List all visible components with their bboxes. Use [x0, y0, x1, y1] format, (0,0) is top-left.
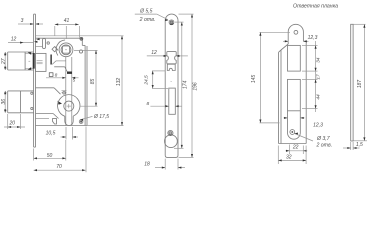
svg-text:50: 50 [47, 153, 53, 159]
svg-text:8: 8 [146, 101, 149, 107]
svg-text:Ø 3,7: Ø 3,7 [316, 136, 331, 142]
svg-text:187: 187 [357, 80, 363, 89]
svg-text:41: 41 [64, 18, 70, 24]
svg-text:132: 132 [116, 78, 122, 87]
svg-text:Ø 17,5: Ø 17,5 [93, 114, 109, 120]
svg-text:12: 12 [11, 37, 17, 43]
svg-text:8: 8 [55, 73, 58, 78]
svg-text:44: 44 [315, 94, 321, 100]
svg-text:70: 70 [56, 164, 62, 170]
svg-text:20: 20 [9, 121, 16, 127]
svg-text:12: 12 [151, 50, 157, 56]
svg-text:2 отв.: 2 отв. [315, 142, 332, 148]
svg-text:1,5: 1,5 [356, 142, 363, 148]
svg-text:10,5: 10,5 [46, 130, 56, 136]
svg-text:34: 34 [315, 57, 321, 63]
svg-text:22: 22 [292, 145, 299, 151]
svg-text:27: 27 [1, 58, 7, 65]
svg-text:24,5: 24,5 [144, 75, 150, 86]
svg-text:36: 36 [1, 99, 7, 105]
svg-text:5: 5 [73, 78, 76, 83]
svg-text:17: 17 [315, 74, 321, 80]
svg-text:Ø 5,5: Ø 5,5 [139, 8, 152, 14]
svg-text:12,3: 12,3 [308, 35, 318, 41]
svg-text:12,3: 12,3 [313, 122, 323, 128]
svg-text:174: 174 [182, 80, 188, 89]
svg-text:Ответная планка: Ответная планка [293, 4, 338, 10]
svg-text:18: 18 [144, 162, 150, 168]
svg-text:85: 85 [90, 79, 96, 85]
svg-text:145: 145 [251, 75, 257, 84]
svg-text:2 отв.: 2 отв. [139, 17, 156, 23]
svg-text:3: 3 [21, 18, 24, 24]
svg-text:196: 196 [193, 82, 199, 91]
svg-text:32: 32 [286, 154, 292, 160]
